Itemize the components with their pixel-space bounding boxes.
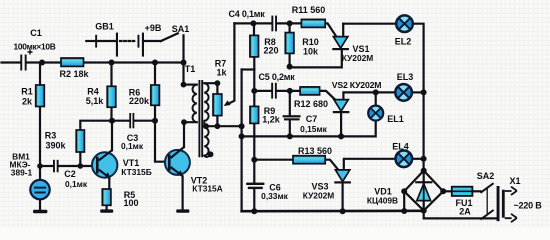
switch SA2 pole 2 — [480, 210, 493, 220]
wire: R3 bottom to base wire — [79, 152, 81, 166]
svg-text:КЦ409В: КЦ409В — [367, 196, 398, 206]
thyristor VS3 — [334, 170, 351, 184]
svg-text:EL1: EL1 — [387, 114, 404, 124]
svg-text:КУ202М: КУ202М — [303, 191, 335, 201]
wire: T1 primary bottom to VT2 collector — [184, 122, 197, 147]
wire: GB1 plus lead to SA1 — [144, 40, 161, 42]
wire: common bus branch to R8 line — [242, 68, 255, 70]
junction dot: AC riser on bottom rail — [401, 208, 407, 214]
junction dot: tap wire on common bus — [239, 123, 245, 129]
wire: VS1 anode riser — [342, 24, 344, 37]
wire: R11 to VS1 gate diagonal — [325, 23, 336, 36]
wire: bottom cathode rail — [242, 210, 424, 213]
svg-text:SA1: SA1 — [172, 24, 190, 34]
svg-text:0,1мк: 0,1мк — [121, 141, 144, 151]
connector X1 socket bar — [497, 186, 500, 221]
junction node C3/R6/VT2 base — [152, 118, 158, 124]
switch SA1 lever — [161, 33, 178, 41]
svg-text:GB1: GB1 — [95, 22, 114, 32]
wire: bridge AC right to fuse — [443, 190, 452, 192]
wire: common bus vertical — [241, 70, 243, 212]
junction dot: VS2 cathode on cathode rail — [338, 133, 344, 139]
wire: R10 top lead — [289, 23, 291, 32]
wire: R7 top lead — [216, 83, 218, 94]
fuse FU1 — [452, 187, 473, 196]
wire: EL3 to DC bus — [412, 91, 424, 93]
wire: R8 bottom lead to C5 rail — [253, 57, 255, 91]
svg-text:EL4: EL4 — [392, 142, 409, 152]
resistor R6 — [151, 85, 160, 105]
junction node R3/base — [78, 163, 84, 169]
svg-text:2А: 2А — [459, 206, 471, 216]
junction dot: R8 top on top rail — [250, 20, 256, 26]
wire: R5 bottom to ground bar — [105, 205, 107, 209]
wire: VT1 collector lead — [111, 121, 113, 151]
junction dot: R10 top on top rail — [287, 20, 293, 26]
svg-text:0,1мк: 0,1мк — [65, 179, 88, 189]
svg-text:C1: C1 — [30, 28, 42, 38]
switch SA2 linkage — [486, 187, 488, 214]
VD1 internal diode cathode bar — [415, 181, 432, 183]
wire: R10 bottom lead — [289, 53, 291, 66]
svg-text:R13 560: R13 560 — [298, 146, 332, 156]
wire: EL2 to right bus corner — [413, 24, 424, 171]
lamp EL3 — [395, 84, 412, 101]
svg-text:100мк×10В: 100мк×10В — [14, 42, 56, 52]
connector X1 plug bar — [502, 190, 505, 218]
junction node at R4 top — [109, 60, 115, 66]
junction node at R1 top — [39, 60, 45, 66]
junction node collector/C3 — [109, 118, 115, 124]
svg-text:5,1k: 5,1k — [86, 96, 105, 106]
transformer T1 secondary upper winding — [204, 83, 208, 126]
resistor R1 — [36, 85, 45, 107]
wire: R2 right to SA1 vertical (supply rail) — [84, 61, 184, 63]
capacitor C2 plates — [53, 160, 59, 173]
resistor R9 — [250, 106, 259, 123]
transistor VT2 — [165, 147, 190, 177]
wire: R13 rail — [254, 159, 293, 161]
T1 secondary bottom free terminal dot — [208, 151, 214, 157]
svg-text:2k: 2k — [22, 97, 33, 107]
wire: GB1 dotted cells — [120, 40, 137, 42]
junction dot: EL4 on DC bus — [421, 156, 427, 162]
VD1 internal diode lead through triangle — [423, 184, 425, 201]
junction dot: C6 bottom on bottom rail — [251, 208, 257, 214]
junction dot: secondary tap — [203, 123, 209, 129]
junction node at R6 top — [152, 60, 158, 66]
wire: R6 top lead — [154, 63, 156, 86]
wire: secondary tap to common bus — [204, 125, 241, 127]
junction dot: R8/R9 on C5 rail — [251, 88, 257, 94]
microphone BM1 — [30, 180, 49, 199]
junction node mic/C2 — [37, 163, 43, 169]
svg-text:EL3: EL3 — [397, 72, 414, 82]
svg-text:R12 680: R12 680 — [294, 99, 328, 109]
junction dot: R7 bottom on tap wire — [215, 123, 221, 129]
svg-text:C4 0,1мк: C4 0,1мк — [228, 9, 265, 19]
lamp EL1 — [368, 106, 383, 121]
wire: C5 to R12 — [277, 90, 300, 92]
ground bar under VT2 — [176, 209, 189, 212]
wire: R4 top lead — [110, 63, 112, 87]
wire: R13 to VS3 gate diagonal — [325, 160, 338, 170]
svg-text:R11 560: R11 560 — [292, 5, 326, 15]
wire: C3 right segment to R6 node — [134, 120, 155, 122]
wire: GB1 cell link — [97, 40, 116, 42]
lamp EL4 — [395, 150, 412, 167]
junction dot: C7 top on C5 rail — [287, 88, 293, 94]
svg-text:390k: 390k — [45, 141, 66, 151]
wire: T1 secondary top to R7 — [204, 82, 217, 84]
junction dot: VS3 cathode on bottom rail — [340, 208, 346, 214]
resistor R12 — [300, 87, 320, 95]
junction dot: C7 bottom on cathode rail — [287, 133, 293, 139]
wire: fuse to SA2 — [472, 190, 480, 192]
svg-text:220k: 220k — [129, 96, 150, 106]
wire: R7 bottom lead — [216, 116, 218, 127]
wire: riser to bridge AC left corner — [403, 191, 405, 211]
junction dot: cathode rail on common bus — [239, 133, 245, 139]
wire: R7 wiper riser to top rail — [227, 23, 234, 104]
wire: R9 top lead — [253, 91, 255, 107]
svg-text:VS2 КУ202М: VS2 КУ202М — [332, 80, 382, 90]
junction dot: bridge left corner — [401, 188, 407, 194]
wire: C4 to R11 — [277, 22, 301, 24]
battery GB1 negative plate (cell 1) — [95, 35, 97, 48]
R7 wiper arrowhead — [224, 100, 231, 106]
resistor R4 — [107, 86, 116, 107]
svg-text:КТ315А: КТ315А — [192, 183, 222, 193]
connector X1 pin 2 with arrow — [505, 214, 517, 222]
wire: VS1 anode to lamp EL2 — [343, 23, 396, 25]
battery GB1 positive long plate (cell 2) — [142, 33, 144, 57]
svg-text:КТ315Б: КТ315Б — [121, 167, 151, 177]
transformer T1 core — [199, 80, 202, 157]
svg-text:0,15мк: 0,15мк — [300, 124, 327, 134]
capacitor C6 plates — [246, 183, 264, 189]
transformer T1 secondary lower winding — [204, 127, 209, 157]
wire: VS3 anode corner from EL4 — [344, 159, 396, 170]
svg-text:1k: 1k — [216, 68, 227, 78]
wire: C7 bottom lead — [289, 120, 291, 136]
svg-text:C7: C7 — [306, 114, 318, 124]
VD1 internal diode leads — [423, 171, 425, 211]
resistor R11 — [301, 19, 325, 27]
svg-text:C2: C2 — [64, 169, 76, 179]
wire: collector node to R3 top corner — [80, 121, 111, 130]
ground bar under R5 — [100, 209, 113, 212]
wire: VS3 cathode lead — [342, 183, 344, 211]
wire: VT1 emitter to R5 — [108, 178, 110, 190]
wire: R1 bottom down to microphone — [39, 107, 41, 181]
resistor R10 — [285, 33, 294, 54]
wire: cathode rail y136 — [242, 120, 376, 136]
wire: R6 bottom to C3 node — [154, 105, 156, 120]
wire: R8 top lead — [253, 23, 255, 35]
ground bar under mic — [33, 210, 47, 213]
thyristor VS1 — [332, 37, 349, 51]
capacitor C1 plates — [20, 55, 26, 71]
wire: EL4 to DC bus — [412, 158, 423, 160]
wire: mic node to C2 left plate — [40, 165, 53, 167]
wire: top rail left segment to C4 — [234, 22, 271, 24]
wire: C6 bottom lead — [253, 189, 255, 211]
connector X1 pin 1 with arrow — [505, 187, 517, 195]
svg-text:X1: X1 — [509, 176, 520, 186]
resistor R8 — [250, 35, 259, 57]
wire: C1 to R1 node — [27, 61, 62, 63]
junction dot: R9 bottom / R13 rail — [251, 157, 257, 163]
wire: T1 primary top link — [184, 83, 197, 85]
wire: C7 top lead — [289, 91, 291, 115]
svg-text:C5 0,2мк: C5 0,2мк — [258, 72, 295, 82]
wire: R1 top lead — [39, 63, 41, 86]
capacitor C3 plates — [129, 113, 134, 128]
svg-text:T1: T1 — [185, 64, 196, 74]
svg-text:389-1: 389-1 — [11, 168, 33, 178]
junction dot: bridge top corner — [421, 168, 427, 174]
svg-text:R2 18k: R2 18k — [59, 69, 89, 79]
junction node at SA1 vertical — [181, 60, 187, 66]
wire: input lead to C1 — [2, 61, 21, 63]
junction dot: EL3 on DC bus — [421, 89, 427, 95]
transformer T1 primary winding — [193, 85, 197, 123]
wire: R12 to VS2 gate diagonal — [320, 91, 335, 100]
svg-text:EL2: EL2 — [395, 37, 412, 47]
wire: C3 left segment — [112, 120, 130, 122]
resistor R7 (variable) — [213, 94, 222, 116]
VD1 internal diode triangle — [417, 184, 431, 201]
capacitor C4 plates — [271, 16, 277, 32]
svg-text:10k: 10k — [303, 46, 319, 56]
capacitor C5 plates — [271, 83, 277, 99]
svg-text:R1: R1 — [21, 87, 33, 97]
svg-text:~220 В: ~220 В — [513, 201, 542, 211]
bridge rectifier VD1 diamond — [404, 171, 443, 211]
wire: SA1 to supply rail and T1 primary top — [182, 35, 184, 84]
resistor R13 — [293, 156, 325, 164]
svg-text:+9В: +9В — [145, 23, 162, 33]
svg-text:1,2k: 1,2k — [262, 115, 281, 125]
svg-text:0,33мк: 0,33мк — [261, 191, 288, 201]
wire: GB1 left lead — [86, 40, 95, 42]
junction dot: EL1 top on VS2 anode wire — [373, 89, 379, 95]
junction dot: R7 top — [215, 80, 221, 86]
resistor R2 — [61, 58, 84, 66]
wire: C5 rail left segment — [254, 90, 271, 92]
lamp EL2 — [396, 15, 413, 32]
wire: VT2 base feed — [155, 121, 166, 162]
junction dot: R10 bottom / VS1 cathode — [287, 64, 293, 70]
wire: EL1 top lead — [375, 92, 377, 105]
junction dot: bridge bottom corner — [421, 208, 427, 214]
svg-text:SA2: SA2 — [477, 171, 495, 181]
svg-text:R3: R3 — [45, 131, 57, 141]
wire: R4 bottom to collector node — [110, 107, 112, 121]
wire: VS1 cathode return to R10 — [290, 51, 342, 68]
C1 polarity plus sign — [28, 50, 33, 55]
resistor R5 — [102, 189, 111, 205]
svg-text:100: 100 — [123, 198, 138, 208]
battery GB1 positive long plate (cell 1) — [116, 33, 118, 57]
wire: R9 bottom lead down to C6 — [253, 123, 255, 182]
battery GB1 negative plate (cell 2) — [138, 35, 140, 48]
svg-text:КУ202М: КУ202М — [342, 53, 374, 63]
svg-text:220: 220 — [263, 45, 278, 55]
T1 primary bottom terminal dot — [181, 119, 187, 125]
wire: C2 right plate to VT1 base — [59, 165, 97, 167]
T1 primary top terminal dot — [181, 82, 187, 88]
wire: bridge DC minus to mains lower lead — [424, 211, 497, 219]
wire: VS2 cathode lead — [340, 113, 342, 136]
wire: VS2 anode corner from EL3 — [343, 92, 395, 99]
junction dot: bridge right corner — [440, 188, 446, 194]
wire: VT2 emitter lead — [182, 176, 184, 209]
transistor VT1 — [92, 150, 117, 179]
resistor R3 — [76, 130, 84, 152]
wire: mic stem to ground bar — [39, 199, 41, 210]
switch SA2 pole 1 — [480, 183, 493, 193]
capacitor C7 plates — [283, 115, 301, 120]
thyristor VS2 — [333, 100, 350, 114]
